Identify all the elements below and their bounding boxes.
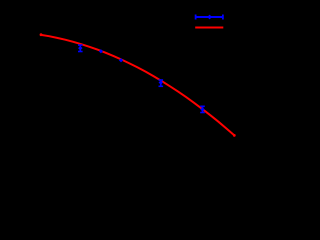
- data point 1 error bar: [78, 45, 83, 51]
- data point 3 marker: [119, 58, 123, 62]
- legend: fit sample (red line): [195, 27, 223, 29]
- data point 2 marker: [99, 49, 103, 53]
- legend: data sample marker: [207, 15, 212, 20]
- legend: data sample (blue error bar): [195, 15, 224, 20]
- data point 5 marker: [200, 107, 205, 112]
- curve end dot: [233, 134, 236, 137]
- data point 4 error bar: [159, 80, 164, 86]
- data point 1 marker: [78, 46, 83, 51]
- fit curve (red theory line): [41, 35, 235, 136]
- data point 4 marker: [159, 80, 164, 85]
- data point 5 error bar: [200, 106, 205, 112]
- curve start dot: [40, 33, 43, 36]
